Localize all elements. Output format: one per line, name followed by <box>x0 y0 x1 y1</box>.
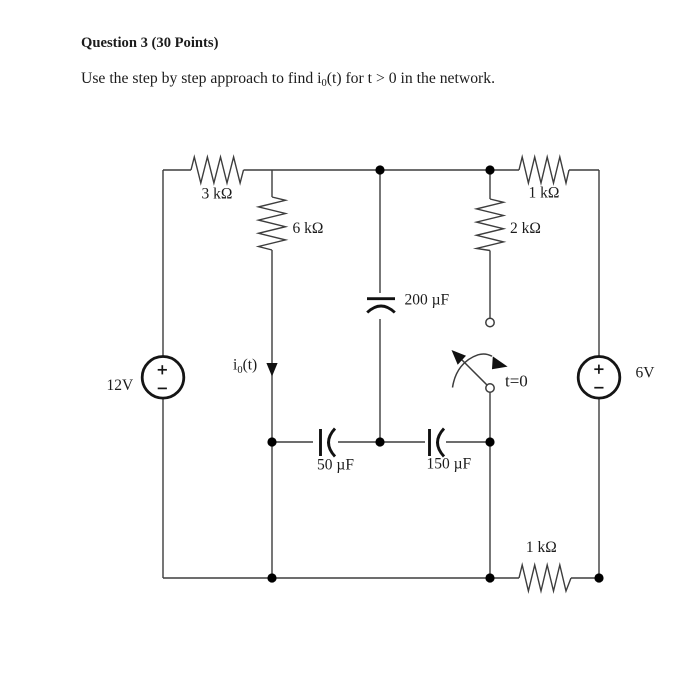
node C (middle left junction dot) <box>267 437 276 446</box>
wire branch: node A down to 200uF top plate <box>379 170 381 293</box>
capacitor 150 uF flat plate <box>428 429 431 456</box>
wire bottom: node F to 1k bottom resistor <box>490 577 519 579</box>
wire branch: 2k resistor to switch top contact <box>489 251 491 319</box>
wire middle: 150uF capacitor to node G <box>446 441 490 443</box>
wire branch: switch pivot down to node G <box>489 393 491 443</box>
wire bottom: node E to node F <box>272 577 490 579</box>
wire branch: top wire to 6k resistor <box>271 170 273 197</box>
wire branch: 6k resistor to node C (through i0 arrow) <box>271 250 273 442</box>
svg-text:i0(t): i0(t) <box>233 357 257 377</box>
resistor 3 kOhm (top left, horizontal) <box>191 157 244 183</box>
wire branch: 200uF bottom to node D <box>379 319 381 442</box>
12V plus sign <box>158 365 167 374</box>
switch pivot contact (open circle) <box>486 384 494 392</box>
wire branch: node B down to 2k resistor <box>489 170 491 199</box>
wire top-left: left rail top to 3k resistor <box>163 169 191 171</box>
resistor 2 kOhm (vertical) <box>477 199 504 251</box>
node E (bottom left junction dot) <box>267 573 276 582</box>
svg-text:6 kΩ: 6 kΩ <box>293 220 324 237</box>
resistor 1 kOhm (bottom, horizontal) <box>519 565 571 591</box>
wire bottom: 1k bottom resistor to bottom-right node <box>571 577 599 579</box>
svg-text:50 µF: 50 µF <box>317 457 354 474</box>
wire right rail upper: corner to 6V source top <box>598 170 600 357</box>
switch blade arrowhead <box>452 350 467 365</box>
resistor 1 kOhm (top right, horizontal) <box>519 157 569 183</box>
voltage source 12V circle <box>142 357 184 399</box>
capacitor 200 uF curved plate <box>367 306 395 313</box>
capacitor 50 uF flat plate <box>319 429 322 456</box>
capacitor 200 uF flat plate <box>367 297 395 300</box>
svg-text:1 kΩ: 1 kΩ <box>529 184 560 201</box>
node F (bottom middle junction dot) <box>485 573 494 582</box>
wire bottom: left corner to node E <box>163 577 272 579</box>
12V minus sign <box>158 387 167 389</box>
wire middle: node D to 150uF capacitor <box>380 441 425 443</box>
wire left rail upper: corner to 12V source top <box>162 170 164 357</box>
wire middle: 50uF capacitor to node D <box>338 441 380 443</box>
svg-text:2 kΩ: 2 kΩ <box>510 220 541 237</box>
switch blade <box>460 358 488 386</box>
wire middle: node C to 50uF capacitor <box>272 441 313 443</box>
capacitor 50 uF curved plate <box>329 429 336 457</box>
wire branch: node C down to bottom node E <box>271 442 273 578</box>
svg-text:6V: 6V <box>636 365 656 382</box>
node H (bottom right junction dot) <box>594 573 603 582</box>
switch top contact (open circle) <box>486 318 494 326</box>
capacitor 150 uF curved plate <box>438 429 445 457</box>
wire right rail lower: 6V source bottom to bottom-right node <box>598 398 600 578</box>
6V plus sign <box>594 365 603 374</box>
node D (middle center junction dot) <box>375 437 384 446</box>
wire left rail lower: 12V source bottom to bottom-left corner <box>162 398 164 578</box>
node G (middle right junction dot) <box>485 437 494 446</box>
svg-text:200 µF: 200 µF <box>405 292 450 309</box>
6V minus sign <box>594 387 603 389</box>
current arrow i0(t) <box>266 363 277 377</box>
wire top: 3k resistor to node A <box>244 169 381 171</box>
svg-text:12V: 12V <box>107 377 135 394</box>
wire top: node A to node B <box>380 169 490 171</box>
svg-text:150 µF: 150 µF <box>426 456 471 473</box>
resistor 6 kOhm (vertical) <box>259 197 286 250</box>
switch motion arc <box>453 354 493 388</box>
node B (top right junction dot) <box>485 165 494 174</box>
wire branch: node G down to bottom node F <box>489 442 491 578</box>
voltage source 6V circle <box>578 357 620 399</box>
svg-text:1 kΩ: 1 kΩ <box>526 539 557 556</box>
wire top: node B to 1k resistor <box>490 169 519 171</box>
node A (top middle junction dot) <box>375 165 384 174</box>
switch motion arrowhead <box>492 356 508 369</box>
svg-text:Question 3 (30 Points): Question 3 (30 Points) <box>81 35 219 51</box>
wire top-right: 1k resistor to right rail corner <box>569 169 599 171</box>
svg-text:3 kΩ: 3 kΩ <box>202 186 233 203</box>
svg-text:Use the step by step approach: Use the step by step approach to find i0… <box>81 70 495 89</box>
svg-text:t=0: t=0 <box>505 372 528 391</box>
